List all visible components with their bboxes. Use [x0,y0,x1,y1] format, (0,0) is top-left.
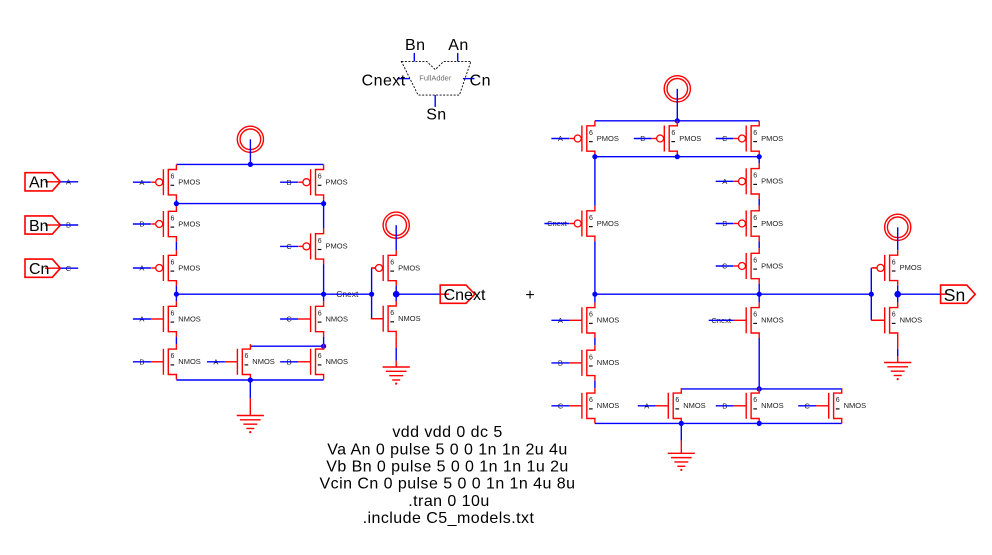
PMOS M18 gate B (sum pull-up series branch) [734,206,783,241]
NMOS M10 gate B (carry pull-down row2 right) [298,344,348,379]
wire ground stem red part (right circuit) [680,441,682,454]
wire vdd rail (left circuit) [176,163,323,165]
wire M12 source to ground [395,348,397,361]
wire intermediate rail (right circuit) [595,156,759,158]
input flag Bn [25,216,60,235]
PMOS M19 gate C (sum pull-up series branch) [734,248,783,283]
svg-text:PMOS: PMOS [597,219,619,228]
wire M17 source to M18 drain [758,199,760,206]
wire M7 source to mid node [323,337,325,347]
wire M4 source to Cnext node / M7 drain [323,264,325,301]
svg-text:Sn: Sn [944,285,965,305]
svg-text:PMOS: PMOS [761,261,783,270]
svg-text:NMOS: NMOS [597,316,620,325]
PMOS M17 gate A (sum pull-up series branch) [734,164,783,199]
wire gate stub of PMOS M16 gate Cnext (sum pull-up left branch) [544,219,569,228]
power VDD symbol (inverter1) [383,212,409,238]
wire gate lead inverter1 PMOS [372,267,375,269]
wire rail2R to M16 drain [594,157,596,206]
wire gate lead inverter2 PMOS [871,267,876,269]
svg-text:Cn: Cn [29,261,49,278]
ground symbol (left circuit) [237,416,264,434]
svg-text:PMOS: PMOS [679,134,701,143]
svg-text:NMOS: NMOS [900,316,923,325]
PMOS M3 gate B (carry pull-up row2) [151,206,200,241]
wire ground stem red part (inverter1) [395,361,397,367]
svg-text:.tran 0 10u: .tran 0 10u [408,493,489,510]
svg-text:NMOS: NMOS [597,358,620,367]
wire inverter2 gate line [870,268,872,320]
svg-text:FullAdder: FullAdder [419,74,452,83]
NMOS M6 gate A (carry pull-down row1 left) [151,301,201,336]
wire inverter1 gate line [371,268,373,319]
svg-text:6: 6 [171,174,175,181]
junction Cnext rail right [321,292,326,297]
wire gate stub of NMOS M26 gate C (sum pull-down bottom row) [798,402,816,411]
wire rail2R to M17 drain [758,157,760,164]
svg-text:NMOS: NMOS [252,357,274,366]
power VDD symbol (inverter2) [885,214,911,240]
NMOS M28 (Sn inverter pull-down) [872,303,922,338]
wire M3 source to M5 drain [175,242,177,251]
svg-text:PMOS: PMOS [178,219,200,228]
wire M18 source to M19 drain [758,241,760,248]
svg-text:6: 6 [892,312,896,319]
junction rail2R left [592,154,597,159]
svg-text:6: 6 [318,353,322,360]
junction ground rail / ground stem [248,377,253,382]
wire M16 source to output node / M20 drain [594,241,596,302]
wire gate stub of PMOS M3 gate B (carry pull-up row2) [133,220,151,229]
svg-text:6: 6 [589,130,593,137]
wire inverter2 output to Sn flag [898,293,941,295]
wire ground stem red part (left circuit) [249,398,251,415]
NMOS M23 gate C (sum pull-down left branch) [569,388,619,423]
wire M28 source lead [897,338,899,349]
wire gate stub of NMOS M21 gate Cnext (sum pull-down mid branch) [709,316,734,325]
PMOS M27 (Sn inverter pull-up) [873,250,922,285]
svg-text:+: + [525,287,535,304]
wire gate lead inverter2 NMOS [871,319,884,321]
junction Sn rail left [592,292,597,297]
wire gate stub of PMOS M5 gate A (carry pull-up row3) [133,264,151,273]
power VDD symbol (left circuit) [237,126,263,152]
pin An of full-adder symbol [457,53,459,62]
wire VDD stem (inverter2) [897,227,899,250]
junction inverter2 output node [894,291,901,298]
pin Cnext of full-adder symbol [397,78,410,80]
svg-text:6: 6 [589,312,593,319]
wire gate lead inverter1 NMOS [372,318,384,320]
svg-text:An: An [29,175,49,192]
wire vdd rail (right circuit) [595,120,759,122]
wire gate stub of NMOS M22 gate B (sum pull-down left branch) [551,359,569,368]
wire gate stub of NMOS M6 gate A (carry pull-down row1 left) [133,315,151,324]
wire M6 source to M8 drain [175,337,177,344]
svg-text:Va An 0 pulse 5 0 0 1n 1n 2u 4: Va An 0 pulse 5 0 0 1n 1n 2u 4u [327,441,568,458]
wire from Bn flag [60,224,78,226]
junction vdd rail / VDD stem (right) [675,118,680,123]
wire gate stub of NMOS M24 gate A (sum pull-down bottom row) [638,402,656,411]
svg-text:.include C5_models.txt: .include C5_models.txt [363,510,535,527]
NMOS M8 gate B (carry pull-down row2 left) [151,344,201,379]
svg-text:Bn: Bn [405,37,425,54]
NMOS M22 gate B (sum pull-down left branch) [569,345,619,380]
wire ground rail (right circuit) [595,422,842,424]
svg-text:6: 6 [589,354,593,361]
svg-text:PMOS: PMOS [761,134,783,143]
PMOS M4 gate C (carry pull-up right branch) [298,229,347,264]
svg-text:Vcin Cn 0 pulse 5 0 0 1n 1n 4u: Vcin Cn 0 pulse 5 0 0 1n 1n 4u 8u [320,476,576,493]
wire VDD stem (inverter1) [395,225,397,250]
junction ground rail / stem (right) [679,421,684,426]
junction rail2 right end [321,201,326,206]
PMOS M11 (Cnext inverter pull-up) [371,250,420,285]
svg-text:PMOS: PMOS [761,177,783,186]
wire gate stub of PMOS M17 gate A (sum pull-up series branch) [716,177,734,186]
wire M27 source to output [897,286,899,295]
NMOS M20 gate A (sum pull-down left branch) [569,303,619,338]
wire ground rail (left circuit) [176,379,323,381]
ground symbol (inverter1) [383,367,410,385]
svg-text:PMOS: PMOS [178,263,200,272]
wire M21 source to lower mid rail [758,338,760,389]
pin Sn of full-adder symbol [434,95,436,107]
svg-text:6: 6 [171,353,175,360]
wire ground stem (right circuit) [680,423,682,440]
PMOS M1 gate A (carry pull-up row1 left) [151,165,200,200]
wire rail2 to M4 drain [323,204,325,229]
PMOS M14 gate B (sum pull-up top row) [652,121,701,156]
svg-text:PMOS: PMOS [326,178,348,187]
svg-text:NMOS: NMOS [178,314,201,323]
wire gate stub of PMOS M4 gate C (carry pull-up right branch) [280,242,298,251]
svg-text:6: 6 [753,215,757,222]
NMOS M25 gate B (sum pull-down bottom row) [734,388,784,423]
wire gate stub of NMOS M7 gate C (carry pull-down row1 right) [280,315,298,324]
NMOS M12 (Cnext inverter pull-down) [371,301,421,336]
junction lower mid rail [757,386,762,391]
svg-text:6: 6 [390,310,394,317]
PMOS M16 gate Cnext (sum pull-up left branch) [570,206,619,241]
wire gate stub of PMOS M18 gate B (sum pull-up series branch) [716,219,734,228]
svg-text:NMOS: NMOS [761,316,784,325]
svg-text:PMOS: PMOS [761,219,783,228]
wire inverter1 output to Cnext flag [396,293,440,295]
NMOS M26 gate C (sum pull-down bottom row) [816,388,866,423]
wire mid node (parallel NMOS drains) [250,345,323,347]
svg-text:6: 6 [753,130,757,137]
svg-text:6: 6 [318,238,322,245]
junction rail2 left end [174,201,179,206]
wire M19 source to output node / M21 drain [758,284,760,303]
wire M22 source to M23 drain [594,381,596,389]
input flag Cn [25,259,60,278]
svg-text:6: 6 [171,215,175,222]
wire gate stub of NMOS M20 gate A (sum pull-down left branch) [551,316,569,325]
junction inverter1 output node [393,291,400,298]
svg-text:NMOS: NMOS [683,401,706,410]
svg-text:An: An [448,37,468,54]
svg-text:NMOS: NMOS [398,314,421,323]
wire gate stub of PMOS M2 gate B (carry pull-up row1 right) [280,178,298,187]
wire intermediate rail (left circuit) [176,203,323,205]
wire M2 source to rail2 [323,200,325,206]
pin Bn of full-adder symbol [413,53,415,62]
junction rail2R right [757,154,762,159]
svg-text:6: 6 [318,174,322,181]
wire from Cn flag [60,267,78,269]
svg-text:6: 6 [589,397,593,404]
power VDD symbol (right circuit) [664,76,690,102]
wire M5 source to Cnext node / M6 drain [175,286,177,302]
junction Cnext rail left [174,292,179,297]
wire VDD stem (left) [249,139,251,164]
ground symbol (inverter2) [884,363,911,381]
wire Cnext internal node rail [176,293,371,295]
svg-text:6: 6 [318,310,322,317]
svg-text:PMOS: PMOS [398,263,420,272]
svg-text:NMOS: NMOS [761,401,784,410]
wire from An flag [60,181,78,183]
PMOS M2 gate B (carry pull-up row1 right) [298,165,347,200]
wire gate stub of PMOS M19 gate C (sum pull-up series branch) [716,262,734,271]
wire M11 source to output [395,286,397,295]
wire VDD stem (right) [676,89,678,121]
wire output to M12 drain [395,294,397,301]
svg-text:Vb Bn 0 pulse 5 0 0 1n 1n 1u 2: Vb Bn 0 pulse 5 0 0 1n 1n 1u 2u [326,459,569,476]
svg-text:NMOS: NMOS [326,357,349,366]
svg-text:Sn: Sn [426,107,446,124]
svg-text:6: 6 [836,397,840,404]
wire M1 source to rail2 [175,200,177,206]
wire ground stem (left circuit) [249,380,251,398]
svg-text:Cn: Cn [470,72,491,89]
PMOS M13 gate A (sum pull-up top row) [570,121,619,156]
svg-text:PMOS: PMOS [326,242,348,251]
junction rail2R mid [675,154,680,159]
output flag Cnext [440,285,486,304]
wire gate stub of PMOS M14 gate B (sum pull-up top row) [634,134,652,143]
wire gate stub of NMOS M8 gate B (carry pull-down row2 left) [133,358,151,367]
input flag An [25,173,60,192]
wire lower mid rail (parallel NMOS drains) [681,388,841,390]
junction mid node [321,344,326,349]
output flag Sn [941,285,976,305]
wire gate stub of PMOS M13 gate A (sum pull-up top row) [551,134,569,143]
wire gate stub of NMOS M9 gate A (carry pull-down row2 mid) [207,358,225,367]
svg-text:PMOS: PMOS [597,134,619,143]
svg-text:Bn: Bn [29,218,49,235]
wire M12 source lead [395,336,397,348]
wire M28 source to ground [897,349,899,356]
svg-text:PMOS: PMOS [178,178,200,187]
svg-text:6: 6 [390,259,394,266]
wire Sn internal node rail [595,293,871,295]
junction ground rail / M25 source [757,421,762,426]
svg-text:6: 6 [589,215,593,222]
pin Cn of full-adder symbol [463,78,475,80]
wire output to M28 drain [897,294,899,302]
wire ground stem red part (inverter2) [897,356,899,363]
svg-text:vdd vdd 0 dc 5: vdd vdd 0 dc 5 [392,424,502,441]
wire gate stub of PMOS M1 gate A (carry pull-up row1 left) [133,178,151,187]
svg-text:6: 6 [892,259,896,266]
svg-text:PMOS: PMOS [900,263,922,272]
svg-text:Cnext: Cnext [444,287,486,304]
wire gate stub of PMOS M15 gate C (sum pull-up top row) [716,134,734,143]
PMOS M15 gate C (sum pull-up top row) [734,121,783,156]
svg-text:6: 6 [753,173,757,180]
svg-text:6: 6 [671,130,675,137]
full-adder block symbol U1 outline [401,61,471,95]
ground symbol (right circuit) [668,453,695,471]
wire gate stub of NMOS M10 gate B (carry pull-down row2 right) [280,358,298,367]
svg-text:6: 6 [171,259,175,266]
svg-text:NMOS: NMOS [597,401,620,410]
junction Sn rail right [757,292,762,297]
junction vdd rail / VDD stem [248,162,253,167]
svg-text:6: 6 [753,312,757,319]
svg-text:NMOS: NMOS [326,314,349,323]
svg-text:Cnext: Cnext [362,72,406,89]
svg-text:NMOS: NMOS [178,357,201,366]
junction inverter1 gate node [369,292,374,297]
svg-text:6: 6 [245,353,249,360]
svg-text:6: 6 [675,397,679,404]
NMOS M9 gate A (carry pull-down row2 mid) [225,344,275,379]
NMOS M21 gate Cnext (sum pull-down mid branch) [734,303,784,338]
svg-text:6: 6 [171,310,175,317]
wire M20 source to M22 drain [594,338,596,345]
wire gate stub of NMOS M25 gate B (sum pull-down bottom row) [716,402,734,411]
svg-text:NMOS: NMOS [844,401,867,410]
junction inverter2 gate node [869,292,874,297]
svg-text:6: 6 [753,257,757,264]
wire gate stub of NMOS M23 gate C (sum pull-down left branch) [551,402,569,411]
PMOS M5 gate A (carry pull-up row3) [151,250,200,285]
NMOS M24 gate A (sum pull-down bottom row) [656,388,706,423]
NMOS M7 gate C (carry pull-down row1 right) [298,301,348,336]
svg-text:6: 6 [753,397,757,404]
